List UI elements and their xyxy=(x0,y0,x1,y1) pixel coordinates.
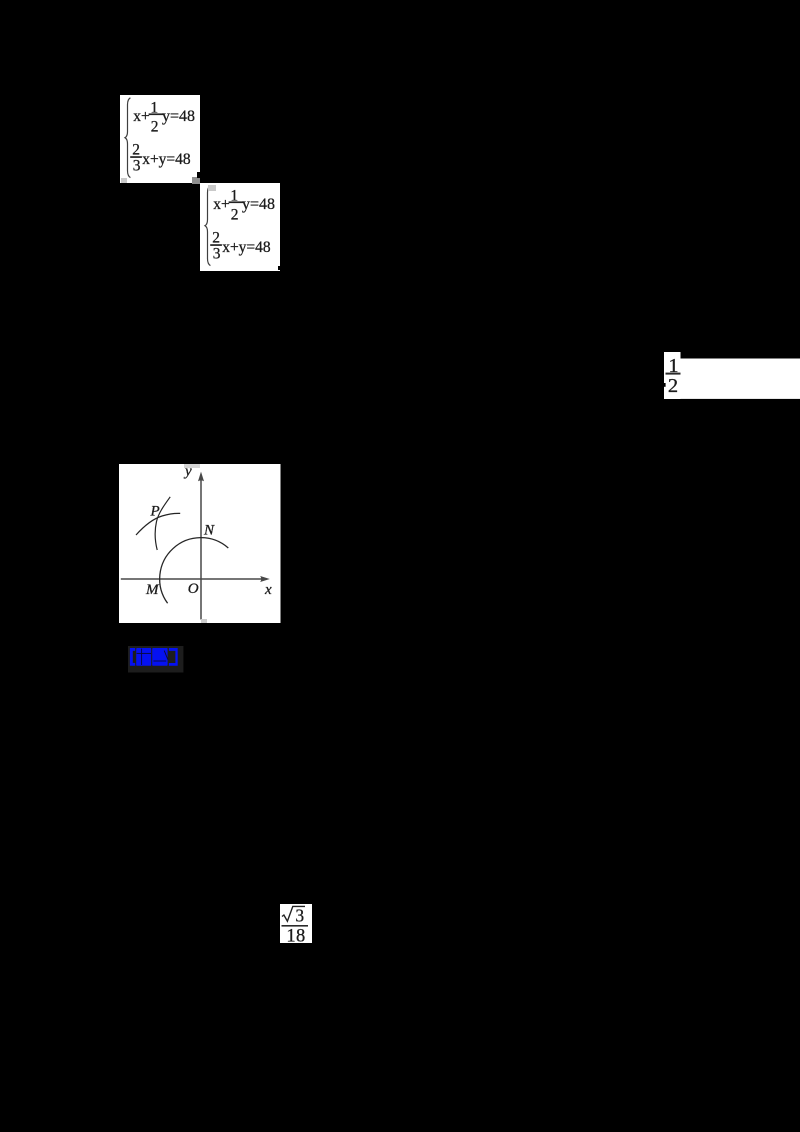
big arc through M and N centered at O xyxy=(160,537,229,603)
left curly brace xyxy=(125,98,130,178)
right bracket 】 xyxy=(169,648,178,666)
radical sign xyxy=(282,906,305,921)
selection handle top-left of eq image 2 xyxy=(208,185,216,191)
svg-text:2: 2 xyxy=(151,118,159,135)
x-axis xyxy=(121,578,265,580)
compass arc A through P (lower-left to right) xyxy=(136,513,180,535)
svg-text:y=48: y=48 xyxy=(162,108,195,125)
svg-text:2: 2 xyxy=(213,230,221,247)
left bracket 【 xyxy=(130,648,135,666)
svg-text:y=48: y=48 xyxy=(242,196,275,213)
fraction bar xyxy=(282,925,309,927)
svg-text:2: 2 xyxy=(132,142,140,159)
selection handle bottom-right of eq image 1 xyxy=(192,177,200,184)
svg-text:N: N xyxy=(203,522,215,538)
svg-text:x+: x+ xyxy=(133,108,150,125)
svg-text:O: O xyxy=(188,581,199,597)
fraction bar xyxy=(666,373,681,375)
svg-text:x+y=48: x+y=48 xyxy=(222,239,271,256)
svg-text:3: 3 xyxy=(295,905,304,925)
inline fraction 1/2 with white highlighted line to right margin xyxy=(662,352,800,405)
stroke gaps in 答 xyxy=(164,651,168,660)
svg-text:P: P xyxy=(150,503,160,519)
svg-text:18: 18 xyxy=(286,926,305,943)
svg-text:x: x xyxy=(264,582,272,598)
character blob 解 xyxy=(136,648,151,666)
left curly brace xyxy=(205,186,210,266)
character blob 答 xyxy=(152,648,167,666)
svg-text:2: 2 xyxy=(231,207,239,224)
dark highlight xyxy=(128,646,183,673)
selection handle bottom-left of eq image 1 xyxy=(121,178,127,183)
svg-text:3: 3 xyxy=(213,246,221,263)
equation image 1: system {x+1/2 y=48 ; 2/3 x+y=48} xyxy=(120,95,200,188)
inline fraction sqrt(3)/18 xyxy=(280,904,312,948)
stroke gaps in 解 xyxy=(141,649,143,665)
white line highlight to right edge xyxy=(680,359,800,399)
blue tag 【解答】 on dark highlight xyxy=(128,646,184,678)
svg-text:2: 2 xyxy=(668,375,678,397)
svg-text:3: 3 xyxy=(133,157,141,174)
compass arc B through P (upper-right to bottom) xyxy=(155,497,170,550)
equation image 2: same system xyxy=(200,183,280,276)
black dot at left edge xyxy=(663,383,666,387)
equation image white box xyxy=(664,352,681,399)
selection handle bottom-center of figure xyxy=(201,619,207,623)
svg-text:x+y=48: x+y=48 xyxy=(142,151,191,168)
x-axis arrowhead xyxy=(260,576,270,582)
svg-text:x+: x+ xyxy=(213,196,230,213)
black notch at bottom-right of eq image 2 xyxy=(278,266,281,270)
selection handle top-center of figure xyxy=(184,464,200,469)
y-axis xyxy=(200,475,202,619)
y-axis arrowhead xyxy=(198,471,204,481)
black notch at right edge of eq image 1 xyxy=(197,172,201,178)
geometry figure: axes with compass construction xyxy=(119,464,281,628)
svg-text:M: M xyxy=(145,582,160,598)
